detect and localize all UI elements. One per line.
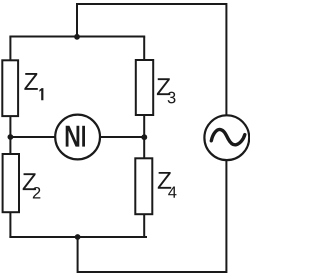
AC source sine wave [211, 129, 245, 144]
resistor Z2 [3, 154, 19, 212]
label NI letter N [67, 124, 78, 149]
junction node right middle [141, 134, 147, 140]
label Z4 [158, 172, 171, 189]
wire bottom loop from bottom node to source bottom [78, 160, 227, 272]
wire right branch vertical [143, 37, 145, 238]
wire left branch vertical [9, 37, 11, 238]
label NI letter I [82, 126, 85, 147]
label Z3 [157, 78, 170, 95]
wire bridge bottom rail [9, 236, 147, 238]
AC source U1 circle [204, 115, 249, 160]
label Z4 subscript 4 [168, 186, 176, 197]
junction node top [74, 34, 80, 40]
resistor Z3 [136, 60, 153, 115]
wire detector horizontal [10, 136, 144, 138]
label Z1 subscript 1 [39, 88, 43, 100]
resistor Z1 [2, 60, 18, 116]
wire top loop from top node to source top [77, 4, 226, 116]
junction node left middle [7, 134, 13, 140]
label Z3 subscript 3 [168, 92, 176, 104]
resistor Z4 [135, 158, 152, 214]
label Z1 [24, 73, 37, 90]
label Z2 [23, 173, 36, 190]
label Z2 subscript 2 [33, 187, 41, 199]
wire bridge top rail [9, 36, 145, 38]
junction node bottom [75, 234, 81, 240]
null indicator NI circle [55, 115, 100, 160]
